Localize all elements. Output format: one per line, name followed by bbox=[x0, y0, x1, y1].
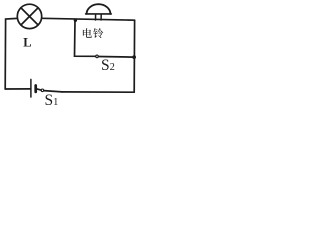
wire: battery to switch S1 pivot bbox=[37, 89, 41, 90]
lamp L bbox=[17, 4, 41, 28]
wire: lamp left to top-left corner, down left side bbox=[5, 18, 17, 89]
wire: S1 to bottom-right corner bbox=[62, 91, 134, 93]
wire: top horizontal from lamp to top-right corner bbox=[42, 18, 135, 20]
bell (dome) bbox=[86, 4, 112, 20]
wire: bottom-left corner to battery bbox=[5, 88, 30, 90]
switch S2 pivot and lever bbox=[96, 55, 134, 58]
junction node on top wire bbox=[74, 19, 77, 22]
label 电铃 (electric bell) bbox=[83, 28, 103, 38]
wire: branch vertical from top junction down to S2 bbox=[75, 20, 96, 56]
battery cell: short negative plate bbox=[34, 86, 37, 92]
switch S1 pivot and lever bbox=[41, 89, 62, 92]
junction node on right wire bbox=[132, 55, 136, 59]
wire: right side vertical bbox=[133, 20, 135, 92]
battery cell: long positive plate bbox=[30, 79, 32, 97]
svg-text:L: L bbox=[23, 36, 31, 50]
